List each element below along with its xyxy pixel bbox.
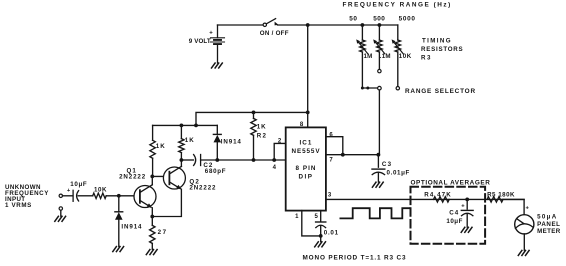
- svg-text:7: 7: [329, 158, 333, 164]
- svg-text:TIMING: TIMING: [422, 37, 452, 44]
- switch S1 ON/OFF: [260, 19, 289, 37]
- wire pot .1M lower lead: [378, 52, 380, 69]
- svg-text:1: 1: [295, 214, 299, 220]
- wire V+ rail to range resistors: [278, 24, 398, 26]
- junction C4: [465, 198, 469, 202]
- resistor 1K (Q2 collector): [179, 125, 195, 160]
- wire selector wiper to 1M: [362, 87, 377, 89]
- ground (C3): [372, 182, 383, 187]
- svg-text:IN914: IN914: [121, 223, 142, 230]
- meter M1 50uA panel meter: [515, 206, 561, 236]
- diode IN914 input clamp: [115, 196, 142, 247]
- svg-text:R3: R3: [421, 55, 432, 62]
- svg-text:4: 4: [273, 165, 277, 171]
- wire lower V+ rail: [153, 124, 218, 126]
- wire trigger node to pin 4: [217, 159, 285, 161]
- junction pot .1M top: [378, 23, 382, 27]
- svg-text:6: 6: [329, 132, 333, 138]
- wire pin 6 loop: [326, 137, 343, 155]
- svg-text:3: 3: [328, 193, 332, 199]
- svg-text:500: 500: [373, 15, 385, 22]
- svg-text:FREQUENCY RANGE (Hz): FREQUENCY RANGE (Hz): [343, 1, 452, 8]
- battery B1 9 VOLT: [189, 25, 225, 63]
- svg-text:METER: METER: [537, 228, 561, 235]
- ground (input terminal): [55, 216, 66, 221]
- svg-text:0.01μF: 0.01μF: [387, 170, 410, 177]
- svg-text:RESISTORS: RESISTORS: [421, 46, 463, 53]
- svg-text:1 VRMS: 1 VRMS: [5, 202, 32, 209]
- resistor R2 1K: [251, 112, 267, 160]
- svg-text:IC1: IC1: [299, 140, 312, 147]
- wire pin 2 branch: [274, 143, 286, 160]
- svg-text:MONO PERIOD T=1.1 R3 C3: MONO PERIOD T=1.1 R3 C3: [303, 255, 407, 261]
- capacitor C2 680pF: [181, 155, 226, 176]
- svg-text:10K: 10K: [399, 53, 412, 60]
- node contact 500: [378, 69, 381, 72]
- dashed box optional averager: [411, 187, 486, 244]
- wire pin 3 output: [326, 198, 524, 200]
- svg-text:1K: 1K: [156, 143, 166, 150]
- svg-text:C4: C4: [449, 210, 459, 217]
- wire Q1 emitter: [151, 208, 153, 217]
- svg-text:IN914: IN914: [221, 138, 242, 145]
- wire Q1 to Q2 base: [152, 175, 169, 177]
- diode IN914 (clamp at pin 2): [213, 125, 241, 160]
- ground (27 ohm): [146, 250, 157, 255]
- resistor 1K (Q1 collector): [150, 125, 166, 176]
- svg-text:2N2222: 2N2222: [119, 174, 146, 181]
- svg-text:.1M: .1M: [380, 53, 391, 60]
- svg-text:50μA: 50μA: [537, 214, 557, 221]
- svg-text:0.01: 0.01: [324, 229, 339, 236]
- wire Q2 collector: [180, 160, 182, 166]
- svg-text:10μF: 10μF: [446, 218, 463, 225]
- wire pot 1M lower lead: [361, 52, 363, 88]
- ground (meter): [518, 250, 529, 255]
- ground (C4): [461, 227, 472, 232]
- transistor Q1 2N2222: [119, 168, 156, 209]
- wire Q2 emitter: [152, 189, 181, 216]
- node input ground terminal: [59, 207, 62, 210]
- svg-text:9 VOLT: 9 VOLT: [189, 38, 211, 45]
- wire pin 7 to selector: [326, 154, 379, 156]
- capacitor C3 0.01uF: [372, 155, 410, 182]
- label UNKNOWN FREQUENCY INPUT: [5, 184, 49, 209]
- svg-text:8 PIN: 8 PIN: [296, 165, 317, 172]
- svg-text:5: 5: [315, 214, 319, 220]
- svg-text:RANGE SELECTOR: RANGE SELECTOR: [405, 88, 476, 95]
- svg-text:10K: 10K: [94, 187, 107, 194]
- resistor R5 180K: [487, 191, 515, 202]
- node input terminal: [59, 194, 62, 197]
- svg-text:R4 47K: R4 47K: [424, 192, 451, 199]
- resistor R4 47K: [424, 192, 451, 203]
- junction pot 1M top: [361, 23, 365, 27]
- svg-text:+: +: [526, 206, 530, 212]
- wire Q1 collector: [151, 176, 153, 184]
- potentiometer R3 .1M (500 Hz): [373, 25, 391, 60]
- transistor Q2 2N2222: [163, 166, 216, 191]
- wire meter to ground: [523, 234, 525, 250]
- junction pin8 drop: [306, 23, 310, 27]
- resistor 10K input: [93, 187, 140, 199]
- svg-text:27: 27: [158, 229, 168, 236]
- svg-text:1K: 1K: [185, 137, 195, 144]
- waveform output square wave: [340, 208, 409, 218]
- capacitor C1 10uF: [63, 181, 93, 201]
- svg-text:+: +: [461, 204, 465, 210]
- node contact 5000: [396, 87, 399, 90]
- svg-text:50: 50: [349, 15, 358, 22]
- svg-text:ON / OFF: ON / OFF: [260, 30, 289, 37]
- capacitor C4 10uF: [446, 199, 473, 227]
- svg-text:10μF: 10μF: [70, 181, 87, 188]
- capacitor 0.01 (pin 5): [316, 211, 339, 242]
- svg-text:NE555V: NE555V: [292, 148, 321, 155]
- junction input diode: [117, 194, 121, 198]
- wire pin 1 to ground node: [302, 211, 321, 236]
- svg-text:R5 180K: R5 180K: [487, 191, 515, 198]
- svg-text:5000: 5000: [399, 15, 416, 22]
- svg-text:1M: 1M: [364, 53, 373, 60]
- timer IC1 NE555V 8-pin DIP: [286, 127, 326, 210]
- wire selector pole to pin7 node: [378, 90, 380, 155]
- wire pot 10K lower lead: [397, 52, 399, 86]
- wire battery to switch: [218, 24, 264, 26]
- ground (pin1/5): [315, 242, 326, 247]
- svg-text:R2: R2: [257, 133, 268, 140]
- wire upper V+ rail: [196, 112, 308, 125]
- svg-text:C3: C3: [382, 161, 393, 168]
- svg-text:DIP: DIP: [299, 174, 314, 181]
- svg-text:680pF: 680pF: [205, 168, 226, 175]
- svg-text:2N2222: 2N2222: [189, 185, 216, 192]
- resistor 27 emitter: [150, 217, 168, 250]
- svg-text:OPTIONAL AVERAGER: OPTIONAL AVERAGER: [411, 179, 491, 186]
- potentiometer R3 1M (50 Hz): [356, 25, 372, 60]
- potentiometer R3 10K (5000 Hz): [392, 25, 412, 60]
- wire R5 to meter: [503, 199, 524, 214]
- svg-text:1K: 1K: [257, 123, 267, 130]
- svg-text:+: +: [209, 31, 213, 37]
- node selector pole: [378, 86, 382, 90]
- label TIMING RESISTORS R3: [421, 37, 463, 61]
- wire pin8 vertical: [307, 25, 309, 127]
- ground (input diode): [113, 247, 124, 252]
- svg-text:PANEL: PANEL: [537, 221, 560, 228]
- ground (battery): [212, 63, 223, 68]
- svg-text:+: +: [67, 188, 71, 194]
